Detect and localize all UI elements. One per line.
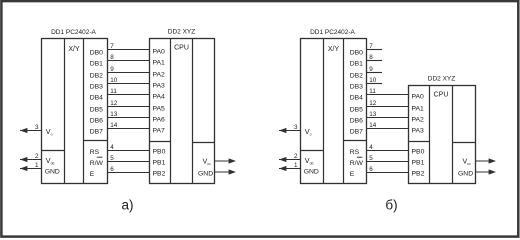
diagram b data bus pin 7 stub (n.c.) xyxy=(367,49,383,51)
svg-text:DB3: DB3 xyxy=(90,84,103,91)
DD2 port cell divider (diagram a) xyxy=(150,141,171,143)
DD1 pin label DB7 (diagram a) xyxy=(90,129,103,136)
DD1 pin label DB6 (diagram a) xyxy=(90,118,103,125)
DD2 pin label PA4 (diagram a) xyxy=(153,94,166,101)
svg-text:7: 7 xyxy=(369,43,373,50)
DD1 pin label DB3 (diagram b) xyxy=(350,84,363,91)
svg-text:3: 3 xyxy=(294,124,298,131)
DD1 pin 2 arrowhead (diagram b) xyxy=(279,157,286,162)
svg-text:PA4: PA4 xyxy=(153,94,166,101)
diagram a data bus pin 7 wire xyxy=(108,49,150,51)
DD2 pin label PA3 (diagram b) xyxy=(412,128,425,135)
svg-text:DB0: DB0 xyxy=(90,50,103,57)
DD1 control cell divider (diagram a) xyxy=(84,140,108,142)
svg-text:R/W: R/W xyxy=(350,160,364,167)
DD1 pin 2 arrowhead (diagram a) xyxy=(20,157,27,162)
DD1 pin label GND ground (diagram b) xyxy=(304,168,319,175)
svg-text:GND: GND xyxy=(304,168,319,175)
svg-text:DD2 XYZ: DD2 XYZ xyxy=(428,76,455,83)
svg-text:б): б) xyxy=(385,197,397,212)
svg-text:PA2: PA2 xyxy=(412,117,425,124)
diagram b data bus pin 9 stub (n.c.) xyxy=(367,72,383,74)
DD2 GND wire right (diagram b) xyxy=(476,171,493,173)
diagram a data bus pin number 12 xyxy=(110,100,118,107)
svg-text:10: 10 xyxy=(369,77,377,84)
DD1 pin label DB5 (diagram b) xyxy=(350,107,363,114)
DD2 VCC arrowhead (diagram b) xyxy=(489,158,496,163)
svg-text:PB0: PB0 xyxy=(412,149,425,156)
DD2 VCC arrowhead (diagram a) xyxy=(229,158,236,163)
DD2 GND arrowhead (diagram a) xyxy=(229,169,236,174)
DD2 pin label PB2 (diagram a) xyxy=(153,171,166,178)
svg-text:X/Y: X/Y xyxy=(328,46,340,53)
DD1 pin label GND ground (diagram a) xyxy=(45,168,60,175)
diagram label a) xyxy=(121,197,133,212)
DD1 pin label DB7 (diagram b) xyxy=(350,129,363,136)
DD2 designator label DD2 XYZ (diagram a) xyxy=(168,29,195,36)
svg-text:PB2: PB2 xyxy=(412,171,425,178)
svg-text:E: E xyxy=(350,171,355,178)
diagram b data bus pin 13 wire xyxy=(367,117,409,119)
DD1 field divider left (diagram a) xyxy=(64,39,66,184)
svg-text:GND: GND xyxy=(198,171,213,178)
diagram a data bus pin 14 wire xyxy=(108,128,150,130)
svg-text:DD1 PC2402-A: DD1 PC2402-A xyxy=(310,29,355,36)
svg-text:3: 3 xyxy=(35,124,39,131)
DD1 pin number 3 (diagram b) xyxy=(294,124,298,131)
svg-text:DB6: DB6 xyxy=(90,118,103,125)
svg-text:DD1 PC2402-A: DD1 PC2402-A xyxy=(51,29,96,36)
svg-text:9: 9 xyxy=(369,66,373,73)
svg-text:DB5: DB5 xyxy=(90,107,103,114)
svg-text:4: 4 xyxy=(369,144,373,151)
DD1 pin 2 wire left (diagram a) xyxy=(20,159,42,161)
svg-text:DB2: DB2 xyxy=(350,73,363,80)
svg-text:DB4: DB4 xyxy=(350,95,363,102)
diagram a control bus pin number 6 xyxy=(110,166,114,173)
svg-text:5: 5 xyxy=(110,155,114,162)
svg-text:DB3: DB3 xyxy=(350,84,363,91)
DD1 field divider left (diagram b) xyxy=(323,39,325,184)
svg-text:14: 14 xyxy=(369,122,377,129)
svg-text:Vo: Vo xyxy=(46,127,53,137)
DD1 pin label DB4 (diagram b) xyxy=(350,95,363,102)
svg-text:Vcc: Vcc xyxy=(203,157,211,167)
svg-text:2: 2 xyxy=(35,153,39,160)
svg-text:PB2: PB2 xyxy=(153,171,166,178)
DD1 pin number 3 (diagram a) xyxy=(35,124,39,131)
diagram b control bus pin number 5 xyxy=(369,155,373,162)
DD2 GND wire right (diagram a) xyxy=(215,171,233,173)
diagram a data bus pin number 9 xyxy=(110,66,114,73)
DD1 pin 1 wire left (diagram b) xyxy=(279,168,301,170)
svg-text:CPU: CPU xyxy=(434,91,449,98)
svg-text:2: 2 xyxy=(294,153,298,160)
diagram b data bus pin number 14 xyxy=(369,122,377,129)
DD1 pin label RS (diagram a) xyxy=(90,149,100,156)
DD1 pin label V0 contrast (diagram b) xyxy=(305,127,312,137)
DD2 pin label PA0 (diagram a) xyxy=(153,49,166,56)
DD1 field divider right (diagram b) xyxy=(343,39,345,184)
diagram a data bus pin 8 wire xyxy=(108,60,150,62)
DD2 field divider right (diagram a) xyxy=(192,39,194,184)
DD1 pin 1 arrowhead (diagram a) xyxy=(20,166,27,171)
svg-text:9: 9 xyxy=(110,66,114,73)
diagram b control bus pin number 4 xyxy=(369,144,373,151)
diagram a data bus pin number 8 xyxy=(110,54,114,61)
svg-text:DB7: DB7 xyxy=(90,129,103,136)
DD1 pin label E (diagram b) xyxy=(350,171,355,178)
svg-text:DB2: DB2 xyxy=(90,73,103,80)
svg-text:DB0: DB0 xyxy=(350,50,363,57)
DD1 pin 3 wire left (diagram a) xyxy=(20,130,42,132)
DD2 pin label GND ground (diagram a) xyxy=(198,171,213,178)
diagram a data bus pin 11 wire xyxy=(108,94,150,96)
DD2 pin label PB2 (diagram b) xyxy=(412,171,425,178)
IC DD1 PC2402-A outer box (diagram a) xyxy=(42,39,108,184)
diagram b data bus pin number 13 xyxy=(369,111,377,118)
DD2 pin label PA1 (diagram a) xyxy=(153,60,166,67)
diagram label b) xyxy=(385,197,397,212)
DD1 pin label RS (diagram b) xyxy=(350,149,360,156)
svg-text:RS: RS xyxy=(90,149,100,156)
diagram a data bus pin number 7 xyxy=(110,43,114,50)
diagram b control bus pin 5 wire xyxy=(367,161,409,163)
DD2 function label CPU (diagram a) xyxy=(174,44,189,51)
DD1 pin label DB2 (diagram b) xyxy=(350,73,363,80)
DD1 pin 1 arrowhead (diagram b) xyxy=(279,166,286,171)
DD1 pin label DB1 (diagram b) xyxy=(350,61,363,68)
diagram b data bus pin 12 wire xyxy=(367,106,409,108)
DD1 pin 3 arrowhead (diagram a) xyxy=(20,128,27,133)
DD1 designator label DD1 PC2402-A (diagram b) xyxy=(310,29,355,36)
svg-text:DB1: DB1 xyxy=(90,61,103,68)
svg-text:PA2: PA2 xyxy=(153,72,166,79)
svg-text:1: 1 xyxy=(35,162,39,169)
DD2 pin label PA3 (diagram a) xyxy=(153,83,166,90)
diagram b control bus pin 4 wire xyxy=(367,150,409,152)
svg-text:DD2 XYZ: DD2 XYZ xyxy=(168,29,195,36)
diagram a data bus pin number 10 xyxy=(110,77,118,84)
svg-text:DB7: DB7 xyxy=(350,129,363,136)
svg-text:DB1: DB1 xyxy=(350,61,363,68)
DD2 pin label PB0 (diagram b) xyxy=(412,149,425,156)
svg-text:8: 8 xyxy=(369,54,373,61)
DD1 control cell divider (diagram b) xyxy=(344,140,367,142)
DD2 pin label PA0 (diagram b) xyxy=(412,94,425,101)
svg-text:PB1: PB1 xyxy=(412,160,425,167)
DD1 pin 3 arrowhead (diagram b) xyxy=(279,128,286,133)
diagram a data bus pin 10 wire xyxy=(108,83,150,85)
svg-text:12: 12 xyxy=(110,100,118,107)
svg-text:RS: RS xyxy=(350,149,360,156)
DD2 pin label PA6 (diagram a) xyxy=(153,117,166,124)
DD1 pin label DB0 (diagram b) xyxy=(350,50,363,57)
diagram a control bus pin 4 wire xyxy=(108,150,150,152)
diagram b data bus pin number 9 xyxy=(369,66,373,73)
DD2 pin label PB0 (diagram a) xyxy=(153,149,166,156)
diagram a control bus pin number 4 xyxy=(110,144,114,151)
diagram a data bus pin 13 wire xyxy=(108,117,150,119)
DD1 pin 3 wire left (diagram b) xyxy=(279,130,301,132)
DD1 pin 2 wire left (diagram b) xyxy=(279,159,301,161)
svg-text:5: 5 xyxy=(369,155,373,162)
DD2 VCC wire right (diagram a) xyxy=(215,160,233,162)
DD1 function label X/Y (diagram a) xyxy=(68,46,80,53)
DD2 pin label PB1 (diagram b) xyxy=(412,160,425,167)
svg-text:10: 10 xyxy=(110,77,118,84)
svg-text:PA7: PA7 xyxy=(153,128,166,135)
DD1 power cell divider (diagram a) xyxy=(42,150,65,152)
svg-text:PA3: PA3 xyxy=(153,83,166,90)
DD2 field divider right (diagram b) xyxy=(452,86,454,184)
DD2 field divider left (diagram b) xyxy=(429,86,431,184)
DD1 pin label DB6 (diagram b) xyxy=(350,118,363,125)
DD1 pin label DB0 (diagram a) xyxy=(90,50,103,57)
diagram a control bus pin 6 wire xyxy=(108,172,150,174)
svg-text:11: 11 xyxy=(110,88,117,95)
svg-text:PA1: PA1 xyxy=(412,106,425,113)
DD2 pin label PA7 (diagram a) xyxy=(153,128,166,135)
DD1 power cell divider (diagram b) xyxy=(301,150,324,152)
DD2 power cell top line (diagram b) xyxy=(453,142,476,144)
svg-text:Vcc: Vcc xyxy=(463,157,471,167)
svg-text:CPU: CPU xyxy=(174,44,189,51)
DD2 power cell top line (diagram a) xyxy=(193,142,215,144)
svg-text:8: 8 xyxy=(110,54,114,61)
DD1 pin label DB4 (diagram a) xyxy=(90,95,103,102)
DD1 pin label DB5 (diagram a) xyxy=(90,107,103,114)
DD1 pin number 2 (diagram a) xyxy=(35,153,39,160)
svg-text:4: 4 xyxy=(110,144,114,151)
DD1 pin label R/W with overline (diagram a) xyxy=(90,157,104,167)
DD1 pin number 1 (diagram b) xyxy=(294,162,298,169)
diagram a control bus pin 5 wire xyxy=(108,161,150,163)
diagram b control bus pin number 6 xyxy=(369,166,373,173)
DD1 pin label R/W with overline (diagram b) xyxy=(350,157,364,167)
DD2 GND arrowhead (diagram b) xyxy=(489,169,496,174)
DD2 pin label PA2 (diagram a) xyxy=(153,72,166,79)
IC DD2 XYZ outer box (diagram b) xyxy=(409,86,476,184)
DD1 pin label DB2 (diagram a) xyxy=(90,73,103,80)
DD2 pin label PA5 (diagram a) xyxy=(153,106,166,113)
svg-text:13: 13 xyxy=(369,111,377,118)
svg-text:14: 14 xyxy=(110,122,118,129)
svg-text:7: 7 xyxy=(110,43,114,50)
svg-text:а): а) xyxy=(121,197,133,212)
diagram b data bus pin 10 stub (n.c.) xyxy=(367,83,383,85)
svg-text:PA1: PA1 xyxy=(153,60,166,67)
IC DD1 PC2402-A outer box (diagram b) xyxy=(301,39,367,184)
svg-text:PA3: PA3 xyxy=(412,128,425,135)
svg-text:PA5: PA5 xyxy=(153,106,166,113)
DD1 pin label E (diagram a) xyxy=(90,171,95,178)
diagram b data bus pin 14 wire xyxy=(367,128,409,130)
diagram b control bus pin 6 wire xyxy=(367,172,409,174)
DD1 field divider right (diagram a) xyxy=(83,39,85,184)
svg-text:1: 1 xyxy=(294,162,298,169)
IC DD2 XYZ outer box (diagram a) xyxy=(150,39,215,184)
diagram b data bus pin number 8 xyxy=(369,54,373,61)
DD2 pin label GND ground (diagram b) xyxy=(458,171,473,178)
DD1 function label X/Y (diagram b) xyxy=(328,46,340,53)
svg-text:12: 12 xyxy=(369,100,377,107)
diagram a data bus pin 9 wire xyxy=(108,72,150,74)
svg-text:11: 11 xyxy=(369,88,376,95)
svg-text:DB6: DB6 xyxy=(350,118,363,125)
DD1 pin label V0 contrast (diagram a) xyxy=(46,127,53,137)
DD2 port cell divider (diagram b) xyxy=(409,141,430,143)
diagram b data bus pin number 10 xyxy=(369,77,377,84)
DD1 pin label VDD power (diagram b) xyxy=(305,156,314,166)
DD2 function label CPU (diagram b) xyxy=(434,91,449,98)
svg-text:DB5: DB5 xyxy=(350,107,363,114)
DD1 pin label VDD power (diagram a) xyxy=(46,156,55,166)
DD2 field divider left (diagram a) xyxy=(170,39,172,184)
svg-text:PA6: PA6 xyxy=(153,117,166,124)
svg-text:Vo: Vo xyxy=(305,127,312,137)
svg-text:PB1: PB1 xyxy=(153,160,166,167)
diagram a control bus pin number 5 xyxy=(110,155,114,162)
svg-text:E: E xyxy=(90,171,95,178)
svg-text:PB0: PB0 xyxy=(153,149,166,156)
DD1 pin 1 wire left (diagram a) xyxy=(20,168,42,170)
DD2 VCC wire right (diagram b) xyxy=(476,160,493,162)
diagram b data bus pin 8 stub (n.c.) xyxy=(367,60,383,62)
svg-text:GND: GND xyxy=(458,171,473,178)
diagram b data bus pin 11 wire xyxy=(367,94,409,96)
svg-text:Vdd: Vdd xyxy=(305,156,314,166)
DD2 pin label PA1 (diagram b) xyxy=(412,106,425,113)
svg-text:X/Y: X/Y xyxy=(68,46,80,53)
svg-text:GND: GND xyxy=(45,168,60,175)
diagram b data bus pin number 11 xyxy=(369,88,376,95)
DD2 designator label DD2 XYZ (diagram b) xyxy=(428,76,455,83)
diagram a data bus pin number 14 xyxy=(110,122,118,129)
DD2 pin label PA2 (diagram b) xyxy=(412,117,425,124)
diagram a data bus pin number 11 xyxy=(110,88,117,95)
DD1 designator label DD1 PC2402-A (diagram a) xyxy=(51,29,96,36)
svg-text:6: 6 xyxy=(369,166,373,173)
DD1 pin number 2 (diagram b) xyxy=(294,153,298,160)
svg-text:Vdd: Vdd xyxy=(46,156,55,166)
svg-text:PA0: PA0 xyxy=(153,49,166,56)
DD1 pin number 1 (diagram a) xyxy=(35,162,39,169)
DD2 pin label VCC power (diagram b) xyxy=(463,157,471,167)
svg-text:PA0: PA0 xyxy=(412,94,425,101)
svg-text:13: 13 xyxy=(110,111,118,118)
diagram a data bus pin 12 wire xyxy=(108,106,150,108)
diagram b data bus pin number 12 xyxy=(369,100,377,107)
DD2 pin label VCC power (diagram a) xyxy=(203,157,211,167)
DD2 pin label PB1 (diagram a) xyxy=(153,160,166,167)
diagram a data bus pin number 13 xyxy=(110,111,118,118)
DD1 pin label DB3 (diagram a) xyxy=(90,84,103,91)
svg-text:R/W: R/W xyxy=(90,160,104,167)
diagram b data bus pin number 7 xyxy=(369,43,373,50)
svg-text:DB4: DB4 xyxy=(90,95,103,102)
svg-text:6: 6 xyxy=(110,166,114,173)
DD1 pin label DB1 (diagram a) xyxy=(90,61,103,68)
